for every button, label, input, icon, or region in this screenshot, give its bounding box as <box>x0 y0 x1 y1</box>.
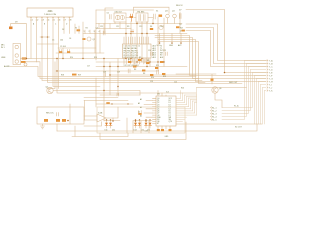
op-amp feedback wire <box>84 122 102 126</box>
svg-text:IN 1: IN 1 <box>1 47 6 49</box>
svg-text:C12: C12 <box>116 26 119 28</box>
transistor Q7 <box>212 87 218 93</box>
label DTR <box>180 30 183 32</box>
resistor R33 <box>169 129 172 131</box>
capacitor C30 <box>157 70 159 74</box>
node LINE label <box>1 57 6 59</box>
svg-text:C17: C17 <box>87 66 90 68</box>
svg-text:OK1 817: OK1 817 <box>115 11 122 13</box>
ground symbol G1 <box>41 126 45 129</box>
resistor R9 <box>146 62 149 64</box>
capacitor C14 circle <box>24 63 27 66</box>
svg-text:GND: GND <box>165 136 170 138</box>
svg-text:T_J: T_J <box>269 87 272 89</box>
junction dot A <box>41 36 43 38</box>
label TR1 <box>137 11 144 13</box>
svg-text:C22: C22 <box>174 82 177 84</box>
IC3 right pins <box>176 98 197 121</box>
vertical x79 <box>78 26 80 34</box>
svg-text:AGND: AGND <box>4 65 10 68</box>
svg-text:T_H: T_H <box>269 81 273 83</box>
transistor Q3 <box>166 14 170 18</box>
IC3 serial driver top pins <box>153 98 157 123</box>
svg-text:595: 595 <box>157 94 160 96</box>
net label 5V wire <box>186 10 267 73</box>
transistor Q2 internals <box>49 88 52 92</box>
label X1 <box>156 10 158 12</box>
diode D12 <box>109 119 112 128</box>
capacitor C15 <box>104 73 106 77</box>
label C5b <box>60 46 66 48</box>
svg-text:C18: C18 <box>103 72 106 74</box>
wire right label row9 down <box>261 85 267 125</box>
svg-text:C13: C13 <box>139 26 142 28</box>
IC3 body <box>156 96 176 126</box>
capacitor C9 body <box>59 51 62 53</box>
optocoupler OK1 box <box>114 13 126 22</box>
pin 5 of J201 <box>53 17 100 87</box>
OK1 left element <box>116 15 120 19</box>
resistor R11 <box>155 67 158 69</box>
svg-text:Q1: Q1 <box>93 39 95 41</box>
svg-text:C4: C4 <box>69 38 71 40</box>
svg-text:R10: R10 <box>151 77 154 79</box>
svg-text:Q7S: Q7S <box>169 121 173 123</box>
svg-text:1: 1 <box>32 20 33 22</box>
wire row y90 center <box>96 91 140 96</box>
capacitor C9 <box>60 50 62 54</box>
label REG <box>176 5 183 7</box>
IC2 side label column <box>153 45 165 60</box>
label Q2 <box>46 87 50 89</box>
label OK1 <box>115 11 122 13</box>
svg-text:C19: C19 <box>117 72 120 74</box>
svg-text:R3: R3 <box>127 26 129 28</box>
wire bundle line 5 <box>57 59 196 94</box>
junction on 5V wire <box>224 72 226 74</box>
svg-text:R13: R13 <box>163 76 166 78</box>
IC3 left wire labels <box>138 98 142 118</box>
resistor R19 <box>72 74 77 76</box>
wire top rail y5 <box>134 7 170 13</box>
wire long audio rail y58.5 <box>29 58 126 60</box>
node AGND label <box>4 65 10 68</box>
capacitor C29 <box>144 59 146 63</box>
wire right label row4 to bus <box>222 70 266 111</box>
svg-text:J201: J201 <box>47 10 53 13</box>
main box left edge <box>95 10 97 107</box>
svg-text:REG 5V: REG 5V <box>176 5 183 7</box>
svg-text:T_D: T_D <box>269 69 273 71</box>
svg-text:3: 3 <box>94 31 95 33</box>
wire inside audio box <box>104 107 149 133</box>
capacitor C33 <box>131 30 133 34</box>
pin number labels of J201 <box>32 20 72 22</box>
wire row y71 <box>56 70 158 72</box>
svg-text:C11: C11 <box>100 26 103 28</box>
right port labels column <box>269 59 273 92</box>
capacitor C7 (orange) <box>130 14 134 22</box>
pin 2 of J201 <box>36 17 38 62</box>
capacitor C27 <box>179 14 181 19</box>
wire row y66 <box>96 66 187 68</box>
transistor Q7 internals <box>214 88 217 92</box>
vertical x95 <box>94 34 96 54</box>
junction dots cluster <box>26 33 165 67</box>
label R2c <box>86 27 88 29</box>
label 1A <box>33 23 68 26</box>
bus wire C4 serial out <box>158 42 242 84</box>
connector J201 label <box>44 10 56 16</box>
svg-text:R8: R8 <box>143 73 145 75</box>
svg-text:A2: A2 <box>138 102 140 105</box>
IC3 left pin wires <box>144 100 153 117</box>
label REC <box>46 112 54 114</box>
wire mic to R16 <box>21 58 30 60</box>
transistor Q5 <box>159 25 163 29</box>
svg-text:3: 3 <box>43 20 44 22</box>
IC3 bottom stubs <box>158 126 170 129</box>
wire preamp feed vertical <box>84 101 86 121</box>
svg-text:R7: R7 <box>139 57 141 59</box>
svg-text:8: 8 <box>70 20 71 22</box>
svg-text:16M: 16M <box>160 26 164 28</box>
svg-text:T_F: T_F <box>269 75 273 77</box>
wire row y44 <box>38 43 59 45</box>
wire bottom y139 <box>100 122 186 140</box>
junction dot D <box>127 103 128 104</box>
svg-text:5: 5 <box>54 20 55 22</box>
label R1b <box>75 27 77 29</box>
svg-text:D12: D12 <box>112 130 115 132</box>
svg-text:3 3 3 3 3 3 3 3 4 4 4: 3 3 3 3 3 3 3 3 4 4 4 <box>124 65 139 67</box>
diode labels <box>105 130 151 132</box>
svg-text:D11: D11 <box>105 130 108 132</box>
svg-text:A1: A1 <box>140 98 142 101</box>
capacitor C24 <box>151 52 153 56</box>
label IC5B <box>98 112 103 114</box>
junction dot F <box>62 58 150 63</box>
svg-text:A4: A4 <box>138 110 140 113</box>
capacitor C8 <box>154 14 156 19</box>
capacitor C10 <box>68 50 70 54</box>
svg-text:Q3: Q3 <box>165 10 168 12</box>
wire right label row5 to bus <box>222 73 266 108</box>
pin contact marks of J201 <box>30 18 70 21</box>
wire power rail y23.5 <box>96 23 182 25</box>
label C25 <box>163 50 166 52</box>
vertical x131b <box>130 29 132 63</box>
svg-text:IC5B: IC5B <box>98 112 103 114</box>
right port brackets <box>267 60 268 92</box>
svg-text:6: 6 <box>59 20 60 22</box>
wire rail y33.5 <box>83 33 187 35</box>
svg-text:R6: R6 <box>134 69 136 71</box>
transistor Q2 <box>47 87 53 93</box>
pin 6 of J201 <box>58 17 60 89</box>
wire R17 to bundle <box>26 62 199 79</box>
transistor Q1 <box>87 37 91 41</box>
IC3 left pin names <box>157 98 162 125</box>
wire row y104 <box>96 103 133 105</box>
wire row y53 <box>56 52 104 54</box>
junction dot B <box>47 36 49 38</box>
resistor R5 <box>128 61 131 63</box>
svg-text:T_E: T_E <box>269 72 273 74</box>
svg-text:2: 2 <box>89 31 90 33</box>
net label TX wire <box>186 24 267 61</box>
svg-text:RL_A: RL_A <box>234 105 239 108</box>
wire row y97.5 <box>84 97 118 99</box>
svg-text:C25: C25 <box>163 50 166 52</box>
capacitor C26 <box>139 111 142 114</box>
label RX <box>180 27 183 29</box>
resistor R2b <box>77 29 81 31</box>
resistor R28 <box>62 119 66 122</box>
vertical x63 <box>62 48 64 59</box>
svg-text:R19: R19 <box>78 75 81 77</box>
svg-text:R2: R2 <box>86 27 88 29</box>
svg-text:T_C: T_C <box>269 66 273 68</box>
svg-text:4: 4 <box>99 31 100 33</box>
op-amp input wires <box>84 116 97 120</box>
op-amp IC5B <box>97 114 106 122</box>
svg-text:T_I: T_I <box>269 84 272 86</box>
junction dot E <box>56 23 153 122</box>
label GND2 <box>165 136 170 138</box>
wire between OK1 and TR1 <box>126 17 136 19</box>
wire TR1 right <box>148 17 153 19</box>
svg-text:C31: C31 <box>145 131 148 133</box>
connector J201 box <box>27 8 73 17</box>
wire IC3 riser to row10 <box>197 87 247 89</box>
label Q4 <box>172 10 175 12</box>
svg-text:T_B: T_B <box>269 63 273 65</box>
svg-text:D2: D2 <box>62 29 64 31</box>
svg-text:C24: C24 <box>148 50 151 52</box>
label 5V <box>179 9 182 11</box>
svg-text:SL OUT: SL OUT <box>235 127 243 129</box>
capacitor C28 <box>128 69 130 73</box>
diode D11 <box>105 119 108 128</box>
svg-text:Q6: Q6 <box>219 88 221 90</box>
svg-text:X1: X1 <box>156 10 158 12</box>
diode D14 <box>138 119 141 128</box>
pin stub labels above rail <box>84 31 100 33</box>
svg-text:T_K: T_K <box>269 90 273 92</box>
junction dot C <box>111 103 112 104</box>
svg-text:Q4: Q4 <box>172 10 175 12</box>
transformer TR1 box <box>136 13 148 22</box>
vertical x83 <box>82 22 84 59</box>
J2 socket circle 3 <box>15 60 18 63</box>
svg-text:LINE: LINE <box>1 57 6 59</box>
node MIC_IN label <box>1 45 6 49</box>
wire diode group2 top <box>133 120 152 122</box>
resistor R22 <box>106 102 110 104</box>
svg-text:R15: R15 <box>94 57 97 59</box>
svg-text:1: 1 <box>84 31 85 33</box>
net label DTR wire <box>186 31 267 67</box>
vertical x142b <box>141 29 143 63</box>
wire ground stub <box>42 124 44 126</box>
IC2 mcu top pins <box>124 37 148 44</box>
svg-text:B: B <box>44 24 46 26</box>
svg-text:R14: R14 <box>70 57 73 59</box>
preamp box <box>37 107 84 124</box>
net label RX wire <box>186 28 267 64</box>
IC2 mcu bottom pins <box>124 58 148 64</box>
wire preamp vertical <box>69 104 71 124</box>
svg-text:7: 7 <box>65 20 66 22</box>
svg-text:GND: GND <box>169 45 174 47</box>
resistor R26 <box>44 119 48 122</box>
IC3 top stubs <box>158 91 166 97</box>
IC2 mcu body <box>123 44 152 58</box>
svg-text:C5 104: C5 104 <box>60 46 66 48</box>
label C4 <box>69 38 71 40</box>
svg-text:104: 104 <box>60 39 63 41</box>
svg-text:R1: R1 <box>75 27 77 29</box>
svg-text:R5: R5 <box>128 59 130 61</box>
wire risers join right <box>185 95 197 103</box>
label cluster texts <box>61 57 184 90</box>
svg-text:TR1 EE5: TR1 EE5 <box>137 11 144 13</box>
J2 socket circle 1 <box>15 45 18 48</box>
wire rail y28.5 <box>96 28 131 30</box>
svg-text:RL_1: RL_1 <box>212 107 217 109</box>
svg-text:RL_2: RL_2 <box>212 110 217 112</box>
resistor R23 <box>176 26 179 28</box>
wire right label row11 down <box>265 91 267 125</box>
capacitor C21 <box>57 113 59 117</box>
resistor R32 <box>161 129 164 131</box>
label R19 <box>78 75 81 77</box>
OK1 second element <box>120 15 124 19</box>
svg-text:R4: R4 <box>150 26 152 28</box>
wire right label row3 to bus <box>222 67 266 114</box>
label Q3 <box>165 10 168 12</box>
vertical x126 <box>125 24 127 59</box>
resistor R25 <box>150 28 153 30</box>
vertical x100b <box>99 34 101 54</box>
wire row y48 <box>58 47 96 49</box>
vertical x137b <box>136 22 138 67</box>
wire row y100.5 <box>84 100 128 102</box>
svg-text:R18: R18 <box>61 75 64 77</box>
capacitor C26 body <box>138 113 142 115</box>
IC3 right riser wires <box>181 88 197 116</box>
pin 8 of J201 <box>69 17 71 34</box>
vertical x118 <box>117 59 119 96</box>
wire Q7 emitter <box>215 93 222 107</box>
vertical x150 <box>149 59 151 67</box>
resistor R1 <box>82 38 85 40</box>
node AVCC dot <box>180 42 182 44</box>
svg-text:AVC: AVC <box>178 44 182 47</box>
wire right label row2 to bus <box>222 64 266 117</box>
capacitor C32 <box>103 31 105 35</box>
transistor Q4 <box>173 14 177 18</box>
IC3 right pin names <box>169 98 173 123</box>
pin 3 of J201 <box>42 17 202 81</box>
svg-text:D: D <box>66 24 68 26</box>
svg-text:RL_4: RL_4 <box>212 116 217 118</box>
svg-text:R20: R20 <box>181 88 184 90</box>
vertical x164b <box>163 34 165 67</box>
svg-text:C3: C3 <box>96 27 98 29</box>
wire right label row6 down <box>255 76 267 125</box>
svg-text:C23: C23 <box>150 81 153 83</box>
vertical x75 <box>74 24 76 34</box>
capacitor C10 body <box>67 51 70 53</box>
label IC3 top B <box>166 91 169 93</box>
node VCC dot <box>159 42 161 44</box>
stubs to dots <box>160 34 182 44</box>
resistor R24 <box>182 30 185 32</box>
wire y8 feed <box>105 8 113 34</box>
bus wire C2 <box>155 38 266 79</box>
pin 4 of J201 <box>48 17 206 83</box>
wire preamp to ground <box>56 124 58 131</box>
wire right label row7 down <box>257 79 267 125</box>
value labels row y26 <box>100 26 164 28</box>
svg-text:D13: D13 <box>134 130 137 132</box>
capacitor C16 <box>117 93 119 96</box>
svg-text:C: C <box>55 24 57 26</box>
label Q6 <box>219 88 221 90</box>
label Q1 <box>93 39 95 41</box>
svg-text:5V: 5V <box>179 9 182 11</box>
svg-text:7-SEG CON: 7-SEG CON <box>44 14 56 16</box>
svg-text:2: 2 <box>37 20 38 22</box>
svg-text:AD5: AD5 <box>153 56 156 59</box>
svg-text:IC3: IC3 <box>166 91 169 93</box>
op-amp output wire <box>106 107 118 118</box>
LED D9 <box>9 27 13 30</box>
svg-text:T_G: T_G <box>269 78 273 80</box>
capacitor C25 <box>166 52 168 56</box>
svg-text:R11: R11 <box>156 65 159 67</box>
bottom left-pointing labels <box>212 107 217 121</box>
IC2 bottom pin labels <box>124 65 139 67</box>
resistor R7 <box>138 59 141 61</box>
svg-text:ST: ST <box>157 123 159 125</box>
connector J2 (audio) <box>13 44 21 65</box>
label TX <box>179 24 182 26</box>
resistor R12 <box>160 61 163 63</box>
vertical x110 <box>109 62 111 95</box>
label C24 <box>148 50 151 52</box>
bottom label brackets <box>211 107 212 121</box>
resistor R21 <box>211 79 214 81</box>
svg-text:4: 4 <box>48 20 49 22</box>
resistor R6 <box>133 66 136 68</box>
bus wire C3 <box>158 40 266 82</box>
label C3 <box>96 27 98 29</box>
resistor R13 <box>162 73 165 75</box>
label RL group <box>234 105 239 108</box>
junction preamp <box>67 120 69 122</box>
svg-text:D9: D9 <box>15 22 18 24</box>
J2 socket circle 2 <box>15 54 18 57</box>
wire bundle line 6 <box>47 62 55 89</box>
diode D15 <box>145 119 148 128</box>
svg-text:R9: R9 <box>147 60 149 62</box>
label D2 <box>62 29 64 31</box>
wire row y95 <box>100 94 140 96</box>
svg-text:C6: C6 <box>107 12 109 14</box>
